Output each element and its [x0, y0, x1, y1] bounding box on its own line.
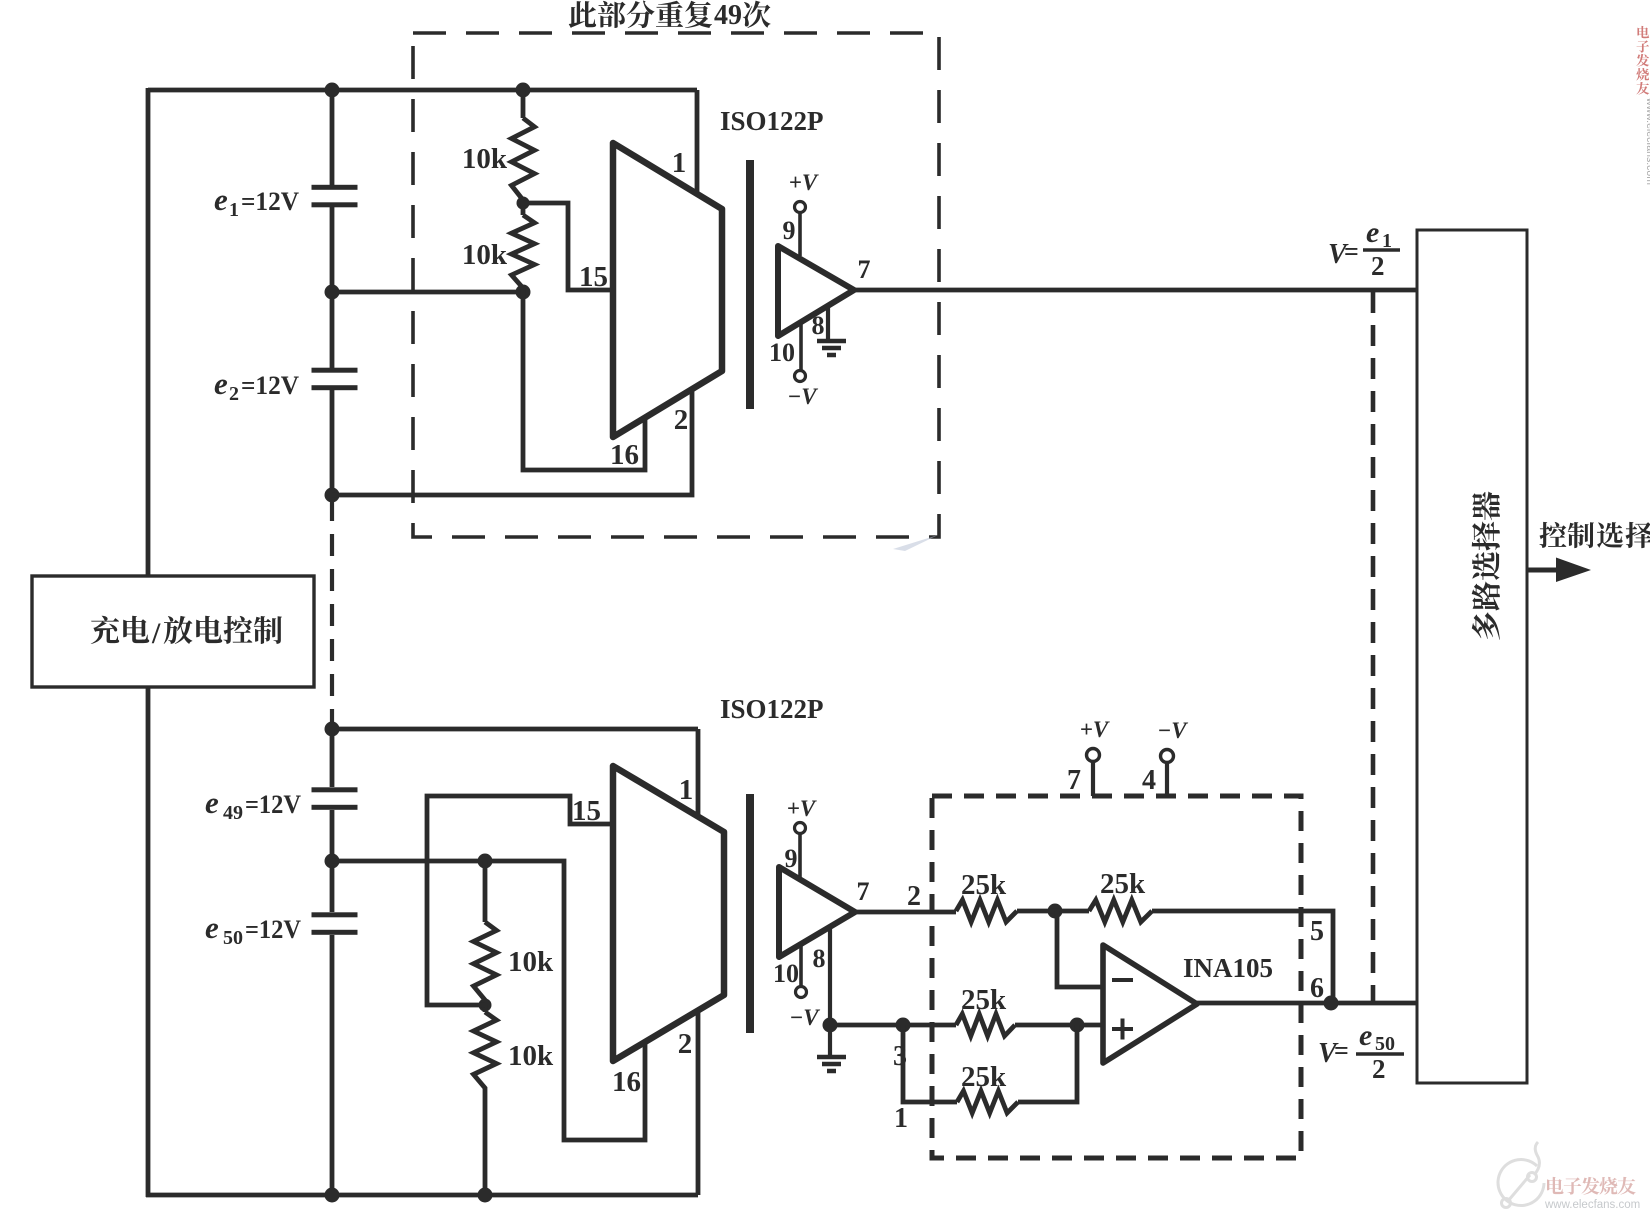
wire battery column e49-e50	[330, 729, 335, 1195]
svg-text:15: 15	[572, 795, 601, 827]
wire R5 to R6	[1017, 909, 1089, 914]
node bottom bus / battery column	[325, 1188, 340, 1203]
node pin 6 output junction	[1324, 996, 1339, 1011]
wire pin 10 supply	[799, 322, 803, 370]
svg-text:2: 2	[1372, 1054, 1386, 1084]
svg-text:2: 2	[1371, 251, 1385, 281]
svg-text:9: 9	[785, 844, 798, 873]
svg-text:9: 9	[783, 216, 796, 245]
block charge/discharge control box	[32, 576, 314, 687]
wire pin 1 loop lower	[903, 1025, 957, 1102]
wire R7 to noninverting input	[1015, 1023, 1103, 1028]
wire R6 to pin 5	[1152, 911, 1333, 1003]
wire pin 10 supply lower	[799, 944, 803, 986]
label repeat 49 times	[569, 1, 596, 28]
battery e49 plates	[312, 787, 358, 792]
wire pin 7 supply stub	[1091, 762, 1095, 796]
node battery midpoint e49/e50	[325, 854, 340, 869]
node lower divider midpoint	[479, 999, 492, 1012]
wire bottom bus	[146, 1193, 698, 1198]
wire pin-1 drop from top bus	[695, 90, 700, 196]
svg-text:2: 2	[674, 404, 689, 436]
svg-text:15: 15	[579, 261, 608, 293]
svg-text:10k: 10k	[462, 239, 508, 271]
op-amp U1 output buffer triangle	[778, 246, 854, 336]
svg-text:+V: +V	[787, 796, 817, 821]
resistor R4 10k lower (lower section)	[474, 1005, 497, 1195]
resistor R8 25k	[957, 1091, 1018, 1113]
svg-text:e: e	[214, 366, 228, 401]
svg-text:50: 50	[1375, 1033, 1395, 1055]
wire top bus	[148, 88, 697, 93]
watermark bottom right logo	[1498, 1142, 1544, 1208]
svg-text:1: 1	[894, 1103, 908, 1134]
block multiplexer box	[1417, 230, 1527, 1083]
wire battery midpoint to pin 16 loop (lower)	[332, 861, 645, 1140]
op-amp noninverting input mark	[1112, 1019, 1133, 1040]
svg-text:8: 8	[813, 944, 826, 973]
dashed wire battery column continuation	[330, 499, 334, 726]
svg-text:−V: −V	[789, 1005, 820, 1030]
svg-text:ISO122P: ISO122P	[720, 106, 824, 136]
wire inverting input	[1057, 911, 1103, 987]
resistor R1 10k upper	[512, 90, 535, 203]
svg-text:1: 1	[679, 774, 694, 806]
label charge/discharge control	[91, 616, 119, 644]
svg-text:1: 1	[672, 147, 687, 179]
wire divider bottom to pin 16 loop	[523, 292, 645, 470]
svg-text:7: 7	[1067, 765, 1081, 796]
wire pin 3 to 25k	[830, 1023, 956, 1028]
svg-text:e: e	[205, 785, 219, 820]
svg-text:5: 5	[1310, 916, 1324, 947]
svg-text:www.elecfans.com: www.elecfans.com	[1644, 97, 1650, 185]
svg-text:e: e	[205, 910, 219, 945]
node pin 3 junction	[896, 1018, 911, 1033]
resistor R6 25k	[1089, 900, 1152, 922]
svg-text:−V: −V	[1157, 718, 1188, 743]
resistor R3 10k upper (lower section)	[474, 861, 497, 1005]
node divider bottom	[516, 285, 531, 300]
wire pin 8 to ground (lower)	[828, 929, 832, 1057]
wire left rail upper	[146, 88, 151, 576]
resistor R7 25k	[956, 1014, 1015, 1036]
svg-text:49: 49	[714, 0, 742, 31]
node lower top bus	[325, 722, 340, 737]
battery e1 plates	[312, 185, 358, 190]
isolation barrier top	[746, 160, 754, 409]
svg-text:50: 50	[223, 927, 243, 949]
resistor R5 25k	[956, 900, 1017, 922]
svg-text:16: 16	[612, 1066, 641, 1098]
svg-text:6: 6	[1310, 973, 1324, 1004]
svg-text:2: 2	[678, 1028, 693, 1060]
node pin 8 / pin 3	[823, 1018, 838, 1033]
battery e50 plates	[312, 912, 358, 917]
svg-text:4: 4	[1142, 765, 1156, 796]
svg-text:=: =	[1344, 237, 1359, 266]
wire node to pin 2 (top ISO)	[332, 387, 692, 495]
svg-text:10: 10	[773, 959, 799, 988]
wire lower top bus	[332, 729, 698, 818]
svg-text:=12V: =12V	[241, 371, 299, 400]
wire lower divider midpoint to pin 15	[427, 796, 613, 1005]
svg-text:INA105: INA105	[1183, 953, 1273, 983]
op-amp U2 output buffer triangle	[779, 867, 855, 957]
svg-text:25k: 25k	[961, 1061, 1007, 1093]
wire pin 4 supply stub	[1165, 763, 1169, 796]
svg-text:49: 49	[223, 802, 243, 824]
svg-text:e: e	[1359, 1019, 1372, 1052]
wire battery midpoint to divider	[332, 290, 523, 295]
terminal -V top ISO	[795, 371, 806, 382]
label multiplexer	[1472, 612, 1500, 640]
svg-text:7: 7	[858, 255, 871, 284]
wire R8 to noninverting junction	[1018, 1025, 1077, 1102]
svg-text:ISO122P: ISO122P	[720, 694, 824, 724]
svg-text:10k: 10k	[508, 1040, 554, 1072]
svg-text:2: 2	[229, 383, 239, 405]
svg-text:=12V: =12V	[241, 187, 299, 216]
watermark bottom right text	[1547, 1177, 1563, 1194]
node noninverting junction	[1070, 1018, 1085, 1033]
svg-text:e: e	[1366, 216, 1379, 249]
svg-text:1: 1	[229, 199, 239, 221]
svg-text:10k: 10k	[508, 946, 554, 978]
node lower divider top	[478, 854, 493, 869]
svg-text:=: =	[1334, 1036, 1349, 1065]
dashed box INA105	[932, 796, 1301, 1158]
svg-text:www.elecfans.com: www.elecfans.com	[1544, 1199, 1640, 1211]
svg-text:2: 2	[907, 881, 921, 912]
node below e2	[325, 488, 340, 503]
svg-text:10: 10	[769, 338, 795, 367]
node battery midpoint e1/e2	[325, 285, 340, 300]
node top bus / battery column	[325, 83, 340, 98]
resistor R2 10k lower	[512, 203, 535, 292]
svg-text:16: 16	[610, 439, 639, 471]
dashed box repeat section	[413, 33, 939, 537]
wire pin 8 to ground	[826, 307, 830, 341]
wire battery column e1-e2	[330, 90, 335, 495]
wire pin 2 to bottom bus (lower)	[696, 1009, 701, 1195]
svg-text:+V: +V	[1080, 717, 1110, 742]
wire pin 9 supply	[798, 213, 802, 256]
ground lower ISO	[817, 1057, 846, 1071]
wire lower ISO output pin 7 to 25k	[855, 910, 956, 915]
svg-text:e: e	[214, 182, 228, 217]
op-amp inverting input mark	[1112, 978, 1133, 982]
svg-text:8: 8	[812, 311, 825, 340]
wire INA105 output to multiplexer	[1197, 1001, 1418, 1006]
isolation barrier lower	[746, 794, 754, 1033]
svg-text:7: 7	[857, 877, 870, 906]
node bottom bus / divider	[478, 1188, 493, 1203]
wire top ISO output to multiplexer	[854, 288, 1418, 293]
svg-text:10k: 10k	[462, 143, 508, 175]
scan smudge artifact	[893, 535, 938, 551]
svg-text:/: /	[151, 617, 161, 650]
svg-text:25k: 25k	[961, 869, 1007, 901]
arrow control select output	[1527, 568, 1560, 573]
op-amp U1 ISO122P input trapezoid	[613, 143, 722, 437]
label control select	[1539, 522, 1566, 548]
wire left rail lower	[146, 687, 151, 1197]
terminal -V lower ISO	[796, 987, 807, 998]
battery e2 plates	[312, 368, 358, 373]
op-amp U2 ISO122P input trapezoid	[613, 766, 724, 1061]
op-amp U3 INA105 triangle	[1103, 945, 1197, 1063]
svg-text:+V: +V	[789, 170, 819, 195]
node divider midpoint	[517, 197, 530, 210]
svg-text:=12V: =12V	[245, 915, 301, 944]
wire divider midpoint to pin 15	[523, 203, 613, 290]
node R5/R6 junction	[1048, 904, 1063, 919]
wire pin 9 supply lower	[798, 834, 802, 877]
dashed wire channel bus	[1371, 292, 1376, 1003]
svg-text:25k: 25k	[1100, 868, 1146, 900]
svg-text:−V: −V	[787, 384, 818, 409]
node top bus / divider column	[516, 83, 531, 98]
ground top ISO	[817, 341, 846, 355]
watermark top right	[1637, 26, 1649, 38]
svg-text:25k: 25k	[961, 984, 1007, 1016]
svg-text:=12V: =12V	[245, 790, 301, 819]
